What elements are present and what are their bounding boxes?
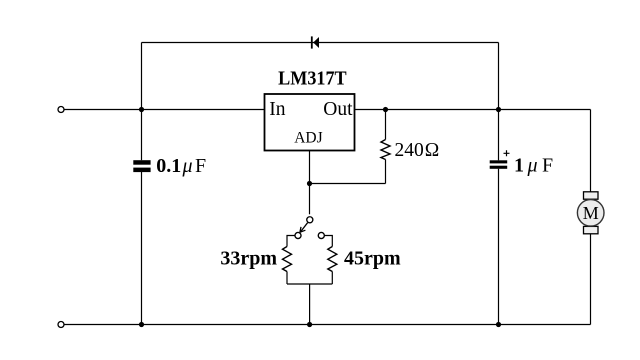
wire R2 bottom lead [286,272,288,285]
svg-text:In: In [269,99,285,120]
IC U1 LM317T box [265,94,355,151]
capacitor C2 plate top [490,160,508,163]
svg-text:1: 1 [514,155,524,177]
switch S1 pole contact [307,217,313,223]
switch S1 right throw contact [318,232,324,238]
junction dot left rail top [139,107,144,112]
wire R1 bottom lead [385,160,387,184]
label C2 polarity plus [504,150,510,156]
wire motor top lead [590,110,592,193]
junction dot right rail out [496,107,501,112]
resistor R3 45rpm zigzag [328,247,337,272]
wire out [355,109,591,111]
resistor R1 240 ohm zigzag [381,140,390,160]
svg-text:μ: μ [527,155,538,177]
wire center down [309,284,311,325]
svg-text:Out: Out [323,99,353,120]
junction dot left rail bottom [139,322,144,327]
wire input top [64,109,264,111]
wire switch right throw lead [325,236,333,247]
diode D1 triangle [313,37,319,48]
wire bottom bracket [287,283,332,285]
motor M1 top brush [584,192,599,199]
svg-text:ADJ: ADJ [294,129,322,146]
junction dot R1 out [383,107,388,112]
svg-text:0.1: 0.1 [156,155,181,177]
wire left rail lower [141,172,143,325]
switch S1 left throw contact [295,232,301,238]
wire top rail [142,42,499,44]
resistor R2 33rpm zigzag [283,247,292,272]
terminal input top [58,107,64,113]
svg-text:LM317T: LM317T [278,68,347,89]
svg-text:μ: μ [182,155,193,177]
wire ADJ pin [309,151,311,215]
wire motor bottom lead [590,234,592,325]
svg-text:M: M [583,203,599,223]
wire ADJ to R1 [310,183,386,185]
junction dot right rail bottom [496,322,501,327]
capacitor C1 plate top [133,160,150,165]
wire bottom rail [64,324,590,326]
junction dot center bottom [307,322,312,327]
wire R1 top lead [385,110,387,140]
wire right rail upper [498,43,500,161]
terminal input bottom [58,322,64,328]
wire left rail upper [141,43,143,161]
motor M1 body circle [577,200,604,227]
capacitor C1 plate bottom [133,168,150,173]
wire R3 bottom lead [331,272,333,285]
capacitor C2 plate bottom [490,166,508,169]
junction dot ADJ node [307,181,312,186]
motor M1 bottom brush [584,226,599,233]
svg-text:F: F [542,155,553,177]
switch S1 lever with arrow [300,223,308,233]
diode D1 bar [311,36,313,48]
wire switch left throw lead [287,236,295,247]
wire right rail lower [498,169,500,325]
svg-text:45rpm: 45rpm [344,248,401,270]
svg-text:Ω: Ω [425,140,440,161]
svg-text:33rpm: 33rpm [220,248,277,270]
svg-text:F: F [195,155,206,177]
svg-text:240: 240 [395,140,424,161]
